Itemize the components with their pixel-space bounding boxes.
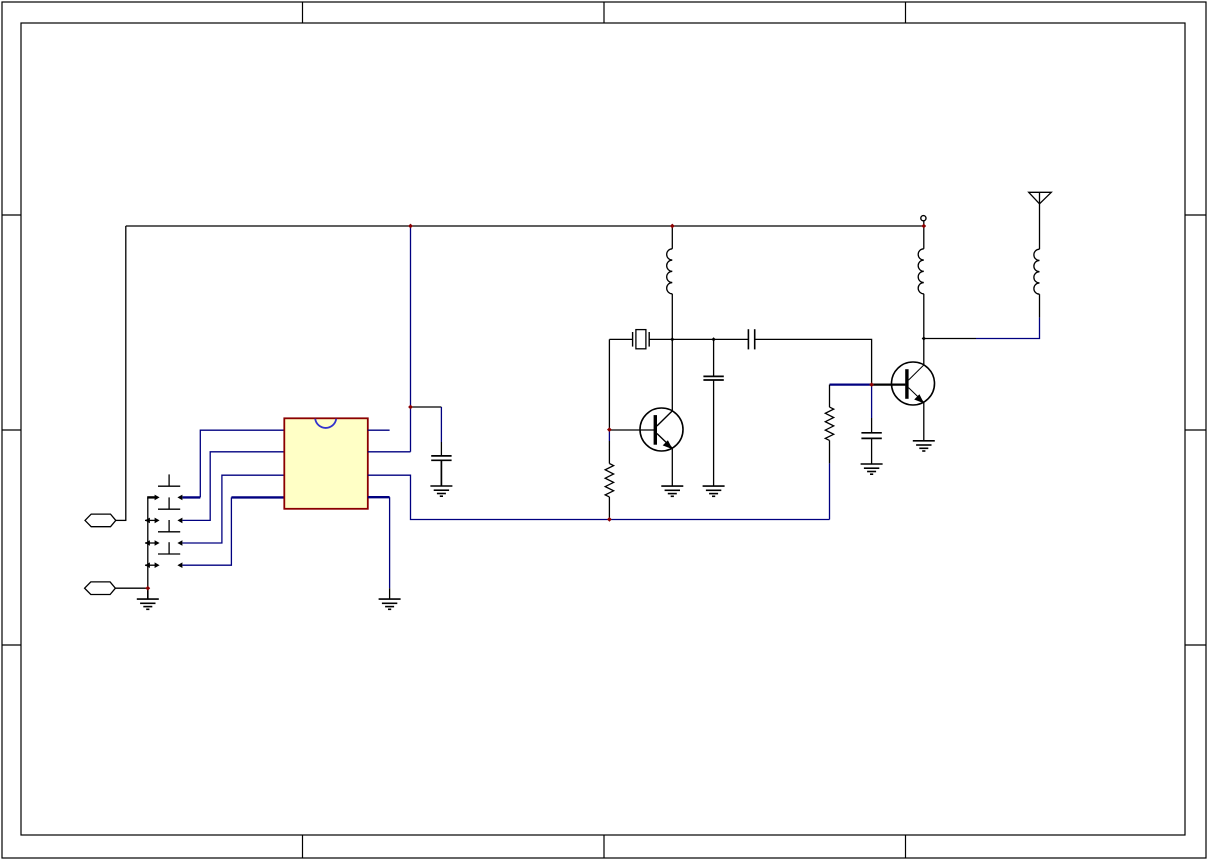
wire R2 to Q2 base xyxy=(830,384,872,386)
wire left rail vertical xyxy=(125,226,127,520)
wire collector to antenna blue part xyxy=(976,318,1040,339)
ground under U1 pin5 xyxy=(379,599,401,609)
wire SW3 to U1 pin3 xyxy=(183,475,285,543)
wire L3 bottom stub xyxy=(1039,294,1041,317)
node crystal row / L1 junction xyxy=(670,337,674,341)
capacitor C3 xyxy=(748,329,754,349)
wire Q2 collector xyxy=(923,339,925,366)
wire SW4 to U1 pin4 xyxy=(183,497,285,565)
IC U1 xyxy=(284,418,368,509)
inductor L1 xyxy=(667,226,673,411)
switch SW4 xyxy=(145,542,183,568)
inductor L2 xyxy=(918,226,924,339)
wire R1 top stub xyxy=(608,430,610,441)
ground under C1 xyxy=(430,486,452,496)
wire Q1 emitter xyxy=(671,448,673,486)
inductor L3 xyxy=(1034,204,1040,294)
antenna ANT1 xyxy=(1029,192,1052,204)
wire SW2 to U1 pin2 xyxy=(183,452,285,521)
ground under Q1 xyxy=(661,486,683,496)
node L2 collector junction xyxy=(922,336,926,340)
wire crystal left branch xyxy=(608,339,610,429)
wire Q1 base xyxy=(609,429,654,431)
wire U1 pin6 data out xyxy=(368,475,830,519)
wire switch bus vertical xyxy=(147,497,149,588)
wire crystal row right xyxy=(649,338,748,340)
resistor R2 xyxy=(825,385,833,464)
transistor Q2 xyxy=(892,362,935,405)
node port2 bus junction xyxy=(145,586,150,591)
pin U1 right stub pin8 xyxy=(368,429,390,431)
wire SW1 to U1 pin1 xyxy=(183,430,285,497)
resistor R1 xyxy=(605,441,613,519)
node open circle above rail end xyxy=(921,216,926,221)
wire crystal row left xyxy=(609,338,632,340)
node crystal row / C2 junction xyxy=(712,337,716,341)
node C1 branch junction xyxy=(408,405,413,410)
port P1 xyxy=(85,514,116,527)
transistor Q1 xyxy=(640,408,683,451)
node Q2 base junction xyxy=(869,382,874,387)
ground under Q2 xyxy=(913,441,935,451)
wire top VCC rail xyxy=(126,225,924,227)
ground under C4 xyxy=(861,464,883,474)
wire C1 branch xyxy=(411,407,442,455)
switch SW2 xyxy=(145,497,183,523)
wire port2 to bus xyxy=(115,587,147,589)
ground under C2 xyxy=(703,486,725,496)
wire C3 to Q2 base branch xyxy=(756,339,872,384)
node R1 data line junction xyxy=(607,517,612,522)
wire collector to antenna black part xyxy=(924,338,976,340)
capacitor C4 xyxy=(861,385,881,464)
wire U1 pin7 to VCC rail xyxy=(368,226,411,452)
wire port1 stub xyxy=(116,519,127,521)
capacitor C2 xyxy=(703,339,723,486)
wire Q2 base xyxy=(872,384,906,386)
port P2 xyxy=(85,582,116,595)
capacitor C1 xyxy=(431,456,451,486)
wire Q2 emitter xyxy=(923,402,925,440)
node Q1 base junction xyxy=(607,427,612,432)
crystal X1 xyxy=(633,330,650,349)
wire R2 bottom to data line xyxy=(829,463,831,519)
node rail end at L2 xyxy=(921,224,926,229)
node rail junction at U1 VCC xyxy=(408,224,413,229)
switch SW1 xyxy=(147,474,182,500)
wire U1 pin5 to ground xyxy=(368,497,390,599)
ground bus xyxy=(137,588,159,609)
node rail junction at L1 xyxy=(670,224,675,229)
switch SW3 xyxy=(145,520,183,546)
